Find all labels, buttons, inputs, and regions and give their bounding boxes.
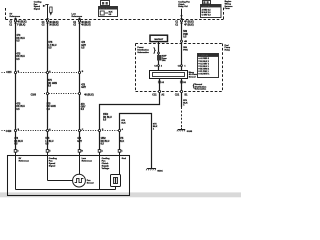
svg-text:Schematics: Schematics — [137, 51, 149, 54]
svg-text:CONN ID: CONN ID — [202, 6, 211, 8]
svg-text:C100: C100 — [31, 94, 37, 96]
svg-text:40 (BLU): 40 (BLU) — [81, 21, 91, 24]
svg-text:Signal: Signal — [49, 166, 56, 168]
svg-text:A1 RED 2: A1 RED 2 — [200, 57, 209, 60]
svg-text:4F (BLK): 4F (BLK) — [184, 21, 194, 24]
svg-text:0.5: 0.5 — [109, 14, 112, 16]
svg-text:BLK: BLK — [121, 123, 126, 125]
svg-text:C21: C21 — [175, 95, 180, 97]
svg-text:Sensor: Sensor — [87, 182, 94, 185]
svg-text:C115: C115 — [6, 72, 12, 74]
svg-text:Sensor: Sensor — [189, 76, 196, 79]
svg-text:Reference: Reference — [72, 16, 83, 18]
svg-text:GRY: GRY — [81, 87, 86, 89]
svg-text:G1 WHT 1: G1 WHT 1 — [200, 74, 210, 76]
svg-text:Schematics: Schematics — [195, 88, 207, 91]
svg-text:PNK: PNK — [183, 50, 188, 52]
svg-text:40 (BLK): 40 (BLK) — [49, 21, 59, 24]
svg-text:C21: C21 — [152, 95, 157, 97]
svg-text:10A: 10A — [162, 59, 166, 62]
svg-text:Reference: Reference — [19, 161, 30, 163]
svg-text:Conn: Conn — [225, 8, 231, 10]
svg-text:4B: 4B — [184, 40, 187, 43]
svg-text:GRY: GRY — [77, 141, 82, 143]
svg-text:G103: G103 — [187, 131, 193, 133]
svg-text:F (BLK): F (BLK) — [17, 25, 25, 27]
svg-text:Reference: Reference — [82, 161, 93, 163]
svg-text:4F (BLK): 4F (BLK) — [184, 24, 194, 27]
svg-text:40 (BLK): 40 (BLK) — [84, 93, 94, 96]
svg-text:Signal: Signal — [34, 8, 41, 10]
svg-text:BLK: BLK — [119, 141, 124, 143]
svg-text:CONN ID: CONN ID — [199, 55, 208, 57]
svg-text:Relay Ctrl: Relay Ctrl — [178, 5, 188, 8]
svg-text:Relay: Relay — [225, 50, 231, 52]
svg-text:G104: G104 — [157, 170, 163, 173]
svg-text:MAF/IAT: MAF/IAT — [154, 38, 163, 41]
svg-text:C GRY 1.0: C GRY 1.0 — [202, 14, 211, 16]
svg-text:30 (BLK): 30 (BLK) — [49, 25, 59, 27]
svg-text:Voltage: Voltage — [102, 167, 110, 170]
svg-text:COVER: COVER — [100, 8, 107, 10]
svg-text:40 (BLK): 40 (BLK) — [17, 21, 27, 24]
svg-text:Gnd: Gnd — [122, 158, 127, 160]
svg-text:C410: C410 — [6, 130, 12, 133]
svg-text:40 (BLU): 40 (BLU) — [81, 24, 91, 27]
